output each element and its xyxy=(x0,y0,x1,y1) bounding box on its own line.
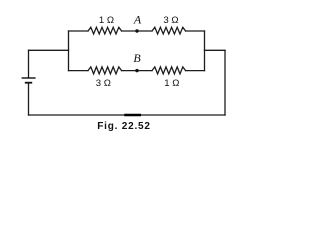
battery E short plate xyxy=(25,82,32,84)
wire right bus to outer right xyxy=(205,49,226,51)
wire battery to left bus xyxy=(29,49,69,51)
thick mark on bottom wire xyxy=(124,114,141,116)
wire right vertical xyxy=(224,50,226,115)
wire left bus bar xyxy=(68,31,70,71)
wire bottom branch left segment xyxy=(69,70,89,72)
wire top branch right segment xyxy=(186,30,205,32)
wire bottom branch middle segment through node B xyxy=(122,70,152,72)
node B dot xyxy=(135,69,138,72)
svg-text:A: A xyxy=(133,13,142,27)
node A dot xyxy=(135,29,138,32)
wire left vertical below battery xyxy=(28,83,30,115)
wire bottom xyxy=(29,114,226,116)
svg-text:Fig. 22.52: Fig. 22.52 xyxy=(97,121,151,132)
resistor R4 1 ohm (bottom right) xyxy=(152,67,186,74)
svg-text:3 Ω: 3 Ω xyxy=(163,15,178,26)
svg-text:1 Ω: 1 Ω xyxy=(99,15,114,26)
svg-text:B: B xyxy=(133,51,141,65)
resistor R1 1 ohm (top left) xyxy=(88,27,122,34)
wire top branch left segment xyxy=(69,30,89,32)
wire bottom branch right segment xyxy=(186,70,205,72)
wire left vertical above battery xyxy=(28,50,30,77)
svg-text:1 Ω: 1 Ω xyxy=(164,78,179,89)
resistor R2 3 ohm (top right) xyxy=(152,27,186,34)
svg-text:3 Ω: 3 Ω xyxy=(96,78,111,89)
wire right bus bar xyxy=(204,31,206,71)
wire top branch middle segment through node A xyxy=(122,30,152,32)
resistor R3 3 ohm (bottom left) xyxy=(88,67,122,74)
battery E long plate xyxy=(22,77,36,79)
